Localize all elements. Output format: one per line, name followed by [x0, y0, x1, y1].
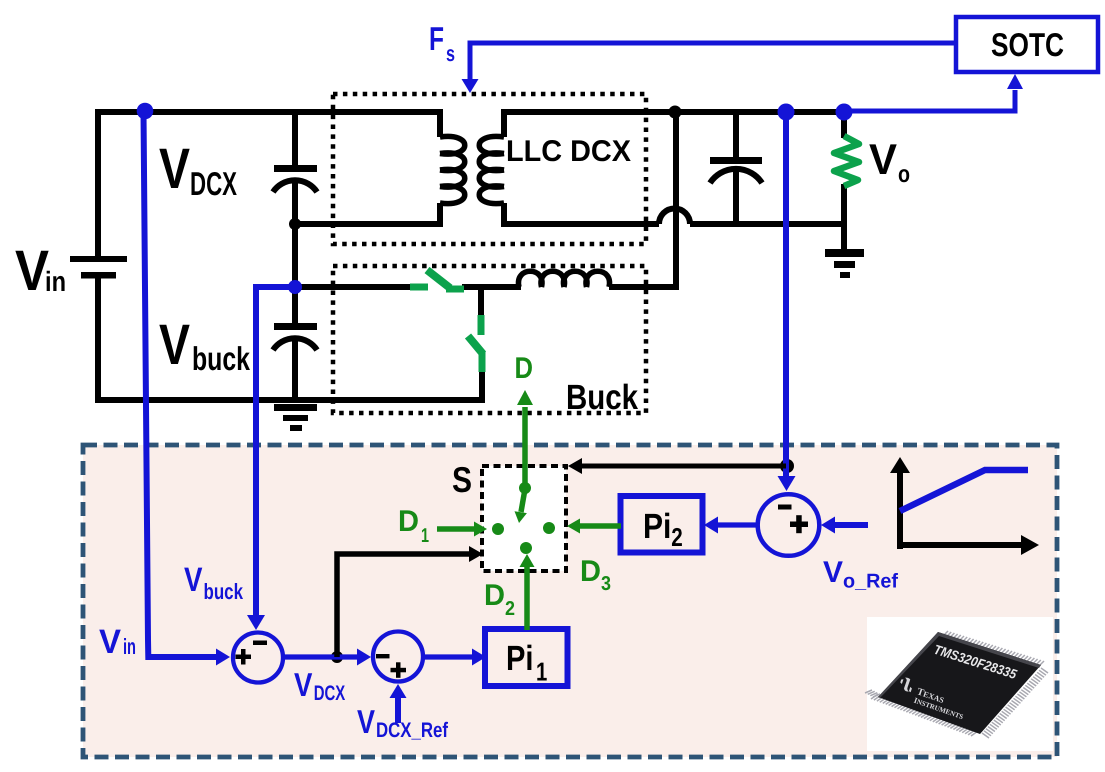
- svg-text:in: in: [123, 634, 136, 659]
- svg-text:V: V: [159, 313, 190, 377]
- svg-text:V: V: [159, 137, 190, 201]
- svg-text:D: D: [580, 555, 601, 588]
- svg-text:buck: buck: [204, 579, 244, 604]
- svg-text:F: F: [429, 20, 444, 57]
- svg-text:2: 2: [505, 598, 515, 620]
- svg-text:2: 2: [671, 522, 683, 552]
- svg-text:1: 1: [421, 525, 429, 547]
- svg-text:V: V: [99, 623, 121, 661]
- svg-text:Pi: Pi: [506, 639, 534, 678]
- svg-text:o_Ref: o_Ref: [843, 571, 898, 593]
- svg-text:D: D: [515, 352, 534, 385]
- svg-text:buck: buck: [192, 340, 250, 377]
- svg-text:DCX: DCX: [190, 165, 237, 202]
- svg-text:SOTC: SOTC: [991, 26, 1064, 63]
- svg-text:DCX: DCX: [314, 682, 346, 705]
- svg-text:3: 3: [601, 573, 611, 595]
- svg-text:Buck: Buck: [566, 378, 638, 417]
- svg-text:D: D: [398, 505, 419, 538]
- svg-text:V: V: [823, 556, 843, 589]
- svg-text:Pi: Pi: [643, 507, 671, 546]
- svg-text:V: V: [294, 666, 312, 703]
- svg-text:s: s: [446, 41, 455, 66]
- svg-text:in: in: [45, 266, 66, 297]
- svg-text:LLC DCX: LLC DCX: [506, 135, 631, 168]
- svg-text:V: V: [357, 703, 375, 740]
- svg-text:DCX_Ref: DCX_Ref: [376, 719, 449, 742]
- svg-text:D: D: [484, 579, 505, 612]
- svg-text:V: V: [15, 239, 49, 303]
- svg-text:1: 1: [536, 657, 547, 687]
- svg-text:S: S: [452, 459, 472, 500]
- svg-text:o: o: [898, 161, 910, 188]
- svg-text:V: V: [184, 561, 203, 599]
- svg-text:V: V: [869, 136, 897, 184]
